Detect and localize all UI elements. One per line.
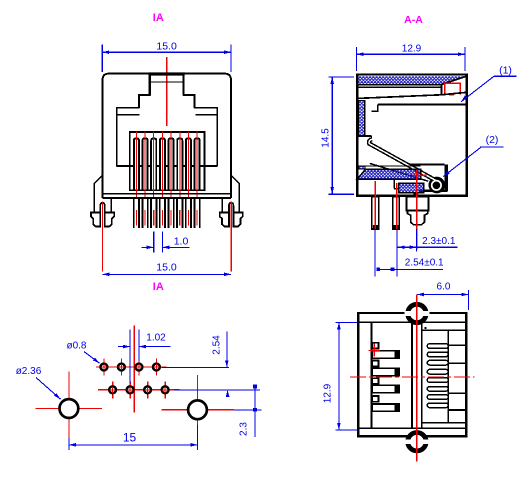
opening left wall xyxy=(116,107,118,167)
footprint hole bottom row 1 xyxy=(109,386,116,393)
section snap peg xyxy=(407,197,429,211)
dimension 1.02 - dim line xyxy=(118,346,130,348)
footprint big hole left xyxy=(60,399,79,418)
bottom view bottom flange line xyxy=(358,427,466,429)
opening right wall xyxy=(216,107,218,167)
bottom view left comb spine xyxy=(370,322,372,428)
pin tail 8 centerline xyxy=(196,210,198,226)
callout (1) leader xyxy=(461,76,494,102)
bottom view left nub 1 xyxy=(372,343,378,349)
left peg centerline xyxy=(101,201,103,271)
opening step left upper xyxy=(138,94,151,96)
svg-text:14.5: 14.5 xyxy=(321,128,332,148)
footprint hole bottom row 4 crosshair xyxy=(164,381,166,398)
bottom view left nub 3 xyxy=(372,378,378,384)
contact 2 xyxy=(143,138,148,189)
dimension 14.5 - dim line xyxy=(331,77,333,194)
right mounting ear xyxy=(231,175,239,212)
contact 2 centerline xyxy=(144,131,146,198)
dimension 2.54±0.1 - extension line xyxy=(374,229,376,276)
pin tail 3 centerline xyxy=(153,210,155,226)
bottom view right top step line xyxy=(422,329,467,331)
opening step right upper xyxy=(183,94,195,96)
pin tail 2 centerline xyxy=(144,210,146,226)
contact spring (2) with loop - outer stroke xyxy=(369,139,436,180)
bottom view left finger 4 xyxy=(372,404,399,411)
right peg centerline xyxy=(230,201,232,271)
dimension 15.0 top - extension lines xyxy=(101,45,103,73)
pin tail 7 centerline xyxy=(187,210,189,226)
dimension 12.9 - dim line xyxy=(356,53,465,55)
top screw peg ring xyxy=(405,302,428,325)
contact 6 centerline xyxy=(179,131,181,198)
pin tail 5 xyxy=(168,199,173,228)
svg-text:2.54: 2.54 xyxy=(212,335,223,355)
footprint bottom row red axis xyxy=(98,389,180,391)
footprint hole top row 2 xyxy=(118,364,125,371)
section tongue top diagonal xyxy=(357,92,466,98)
contact 7 centerline xyxy=(187,131,189,198)
svg-text:15: 15 xyxy=(123,430,137,444)
latch slot top bar xyxy=(149,72,185,75)
footprint central centerline xyxy=(133,326,135,413)
footprint hole top row 1 crosshair xyxy=(103,359,105,376)
svg-text:2.3: 2.3 xyxy=(239,422,250,436)
contact 8 centerline xyxy=(196,131,198,198)
svg-text:(2): (2) xyxy=(486,134,499,146)
dimension 2.3±0.1 - dim line xyxy=(398,246,458,248)
body bottom line upper xyxy=(103,193,232,195)
section tongue underside xyxy=(378,103,467,105)
contact spring (2) inner white line xyxy=(369,139,436,180)
svg-text:1.02: 1.02 xyxy=(146,332,166,343)
contact 3 centerline xyxy=(153,131,155,198)
svg-text:IA: IA xyxy=(153,12,164,24)
bottom view outer outline xyxy=(358,313,466,436)
front view body outline xyxy=(103,74,232,198)
footprint big hole left crosshair xyxy=(35,408,102,410)
bottom view left comb red crosshair xyxy=(368,349,380,351)
section bottom-left ledge line xyxy=(365,165,421,167)
pin tail 2 xyxy=(142,199,147,228)
section top wall bottom line and taper xyxy=(357,76,466,84)
section peg root black block xyxy=(413,193,418,200)
dimension 12.9 - extension lines xyxy=(355,47,357,71)
section inner line under top wall xyxy=(357,86,441,88)
pin tail 5 centerline xyxy=(170,210,172,226)
footprint hole bottom row 3 crosshair xyxy=(147,381,149,398)
footprint hole top row 4 xyxy=(153,364,160,371)
latch slot right wall xyxy=(182,75,184,96)
spring pocket bottom edge xyxy=(419,190,448,192)
dimension 15 - extension lines xyxy=(68,438,70,450)
right snap peg xyxy=(229,203,233,212)
dimension 2.54±0.1 - dim line xyxy=(377,268,443,270)
section pin 1 centerline xyxy=(374,181,376,229)
bottom view left finger 3 xyxy=(372,385,399,392)
left snap peg xyxy=(100,203,104,212)
footprint hole bottom row 2 xyxy=(127,386,134,393)
bottom view right bottom step line xyxy=(422,422,467,424)
spring pocket top edge xyxy=(405,164,445,166)
contact 4 xyxy=(160,138,165,189)
footprint top row red axis xyxy=(96,366,167,368)
pin tail 7 xyxy=(186,199,191,228)
svg-text:15.0: 15.0 xyxy=(156,41,177,53)
pin tail 4 centerline xyxy=(161,210,163,226)
contact 7 xyxy=(186,138,191,189)
svg-text:2.3±0.1: 2.3±0.1 xyxy=(422,236,456,247)
svg-text:(1): (1) xyxy=(499,65,512,77)
left mounting ear xyxy=(94,175,102,212)
detail (1) red box xyxy=(445,83,461,95)
contact 5 centerline xyxy=(170,131,172,198)
dimension 1.02 - extension lines xyxy=(129,330,131,384)
svg-text:15.0: 15.0 xyxy=(156,262,177,274)
dimension 2.54 vertical - dim line outside arrows xyxy=(226,332,228,368)
bottom screw peg ring xyxy=(405,430,428,453)
section pin 1 xyxy=(372,197,379,229)
contact box xyxy=(130,132,205,190)
opening step left double lines xyxy=(116,107,140,109)
bottom view right wall xyxy=(447,330,449,423)
bottom view speck xyxy=(424,327,426,329)
contact 5 xyxy=(169,138,174,189)
bottom view right comb slots xyxy=(427,344,448,349)
pin tail 8 xyxy=(194,199,199,228)
bottom view center rib left line xyxy=(411,322,413,428)
contact 3 xyxy=(151,138,156,189)
opening step right double lines xyxy=(194,107,218,109)
section peg centerline xyxy=(416,169,418,249)
contact 1 centerline xyxy=(135,131,137,198)
pin tail 4 xyxy=(160,199,165,228)
spring loop red crosshair xyxy=(413,174,427,176)
bottom view left finger 2 xyxy=(372,368,399,375)
section ramp edge under spring xyxy=(370,163,428,181)
footprint hole top row 1 xyxy=(101,364,108,371)
svg-text:ø0.8: ø0.8 xyxy=(66,341,86,352)
opening bottom ledge xyxy=(117,165,218,167)
contact 4 centerline xyxy=(161,131,163,198)
contact 6 xyxy=(177,138,182,189)
svg-text:A-A: A-A xyxy=(404,14,423,26)
section left wall step xyxy=(357,135,371,137)
footprint hole top row 3 crosshair xyxy=(138,359,140,376)
footprint hole bottom row 4 xyxy=(162,386,169,393)
bottom view left nub 2 xyxy=(372,361,378,367)
dimension 12.9 - dim line xyxy=(338,322,340,430)
bottom view vertical centerline xyxy=(416,295,418,462)
svg-text:1.0: 1.0 xyxy=(174,235,189,247)
footprint hole top row 2 crosshair xyxy=(120,359,122,376)
dimension 14.5 - extension lines xyxy=(329,76,355,78)
dimension 2.54 vertical - ext lines xyxy=(162,366,229,368)
dimension 6.0 - dim line xyxy=(417,294,468,296)
spring pocket step to bottom-left xyxy=(393,179,395,189)
spring pocket right wall xyxy=(445,165,448,191)
bottom view left nub 4 xyxy=(372,396,378,402)
contact 1 xyxy=(134,138,139,189)
footprint hole top row 4 crosshair xyxy=(155,359,157,376)
latch slot left wall xyxy=(149,75,151,96)
dimension 15 - dim line xyxy=(69,444,198,446)
dimension 6.0 - ext line right xyxy=(467,290,469,310)
section pin 2 xyxy=(393,197,400,229)
contact spring (2) loop disc xyxy=(429,177,446,194)
footprint hole bottom row 2 crosshair xyxy=(129,381,131,398)
dimension 1.0 - extension lines xyxy=(153,232,155,253)
footprint hole bottom row 3 xyxy=(144,386,151,393)
dimension 2.3±0.1 - extension line xyxy=(416,229,418,251)
svg-text:2.54±0.1: 2.54±0.1 xyxy=(405,257,444,268)
footprint big hole right xyxy=(188,400,207,419)
footprint big hole right crosshair xyxy=(162,409,234,411)
bottom view right margin steps xyxy=(448,344,466,346)
pin tail 1 centerline xyxy=(135,210,137,226)
dimension 1.0 - dim line with outside arrows xyxy=(142,246,154,248)
latch slot inner line xyxy=(151,81,183,83)
bottom view top flange line xyxy=(358,321,466,323)
dimension 12.9 - ext lines xyxy=(335,321,357,323)
contact 8 xyxy=(195,138,200,189)
dimension 15.0 top - dim line with arrows xyxy=(102,51,231,53)
svg-text:6.0: 6.0 xyxy=(437,282,451,293)
front view vertical centerline xyxy=(166,57,168,126)
callout (2) leader xyxy=(443,147,481,177)
bottom view horizontal centerline xyxy=(350,376,475,378)
pin tail 3 xyxy=(151,199,156,228)
bottom view left finger 1 xyxy=(372,351,399,358)
pin tail 1 xyxy=(134,199,139,228)
section pin 2 centerline xyxy=(396,183,398,229)
section body outline xyxy=(357,74,467,195)
dimension 2.3 vertical right xyxy=(234,409,262,411)
pin tail 6 centerline xyxy=(179,210,181,226)
pin tail 6 xyxy=(177,199,182,228)
svg-text:12.9: 12.9 xyxy=(402,44,422,55)
footprint hole bottom row 1 crosshair xyxy=(112,381,114,398)
svg-text:ø2.36: ø2.36 xyxy=(16,366,42,377)
section tongue left step xyxy=(372,104,378,111)
svg-text:IA: IA xyxy=(153,281,164,293)
dimension 15.0 bottom - dim line xyxy=(102,273,231,275)
bottom view center rib right line xyxy=(421,322,423,428)
body bottom line lower xyxy=(103,197,232,199)
footprint hole top row 3 xyxy=(136,364,143,371)
contact spring loop white channel xyxy=(432,181,441,190)
svg-text:12.9: 12.9 xyxy=(323,383,334,403)
